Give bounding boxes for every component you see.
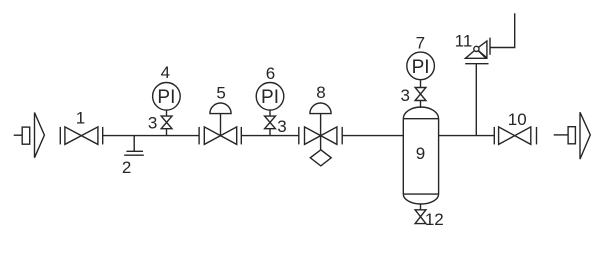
svg-text:PI: PI: [412, 57, 430, 78]
svg-text:11: 11: [455, 31, 473, 50]
svg-text:8: 8: [316, 83, 325, 102]
svg-text:4: 4: [161, 63, 170, 82]
svg-text:3: 3: [148, 114, 157, 133]
svg-text:3: 3: [400, 86, 409, 105]
svg-text:7: 7: [416, 33, 425, 52]
svg-text:9: 9: [416, 144, 425, 163]
svg-text:6: 6: [266, 64, 275, 83]
svg-text:1: 1: [76, 108, 85, 127]
svg-text:2: 2: [122, 158, 131, 177]
svg-text:10: 10: [508, 110, 527, 129]
svg-text:12: 12: [425, 210, 444, 229]
svg-text:PI: PI: [261, 87, 279, 108]
svg-text:3: 3: [277, 117, 286, 136]
svg-text:5: 5: [216, 84, 225, 103]
svg-text:PI: PI: [157, 87, 175, 108]
